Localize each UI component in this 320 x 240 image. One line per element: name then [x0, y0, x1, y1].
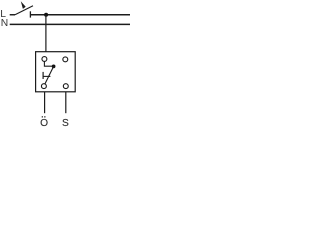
node Ö [40, 116, 48, 129]
wire to terminal Ö [44, 92, 46, 113]
terminal circle bottom-right [63, 84, 68, 89]
wire L main [30, 14, 130, 16]
switch S1 blade [15, 6, 33, 15]
wire L lead [10, 14, 15, 16]
fixed contact lead inside box [43, 75, 50, 77]
terminal circle top-left [42, 57, 47, 62]
node S [62, 118, 69, 129]
contact pivot dot [52, 65, 56, 69]
switch S1 actuation arrow [21, 1, 26, 9]
wire N [10, 23, 130, 25]
fixed contact tick inside box [42, 72, 44, 79]
svg-text:N: N [1, 18, 8, 29]
wire to terminal S [65, 92, 67, 113]
svg-text:S: S [62, 118, 69, 129]
node N [1, 18, 8, 29]
relay insert box U1 [36, 52, 76, 92]
terminal circle top-right [63, 57, 68, 62]
switch S1 fixed contact tick [29, 11, 31, 17]
wire from junction down to box [45, 15, 47, 52]
junction dot on L [44, 13, 48, 17]
contact blade [45, 66, 54, 84]
contact feed from top-left terminal [44, 61, 53, 66]
node L [0, 9, 6, 20]
svg-text:O: O [40, 118, 48, 129]
terminal circle bottom-left [41, 84, 46, 89]
